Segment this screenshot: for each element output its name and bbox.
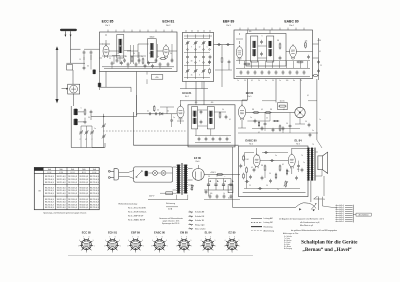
- label EBF 89: [223, 20, 235, 28]
- wire: [177, 100, 184, 124]
- resistor R10: [153, 105, 155, 112]
- wire: [238, 132, 318, 134]
- resistor R13: [265, 112, 272, 114]
- svg-text:1: 1: [215, 245, 216, 247]
- tube Rö3 EBF89: [236, 45, 242, 59]
- svg-text:Rö 2: Rö 2: [185, 96, 189, 98]
- svg-text:93 215 6,3: 93 215 6,3: [90, 193, 99, 195]
- svg-text:93 215 6,3: 93 215 6,3: [45, 207, 54, 209]
- FM antenna input box: [68, 84, 80, 94]
- capacitor C35: [245, 180, 249, 183]
- dial lamp 1: [153, 171, 158, 176]
- svg-text:93 215 6,3: 93 215 6,3: [57, 179, 66, 181]
- tube socket EABC 80: [151, 237, 168, 254]
- resistor R2: [131, 56, 133, 63]
- svg-text:0,5: 0,5: [261, 109, 263, 111]
- svg-text:die größeren Widerstandswerte: die größeren Widerstandswerte in kΩ und …: [291, 229, 337, 232]
- value labels out: [246, 155, 303, 191]
- svg-text:1k: 1k: [223, 193, 225, 195]
- svg-text:93 215 6,3: 93 215 6,3: [79, 204, 88, 206]
- output transformer: [307, 148, 316, 181]
- svg-text:B = Buchse: B = Buchse: [284, 240, 292, 242]
- capacitor C14: [167, 62, 170, 66]
- svg-text:Anschluß a1: Anschluß a1: [336, 204, 345, 207]
- svg-text:30: 30: [191, 61, 193, 63]
- wire: [81, 126, 92, 130]
- svg-text:Rö 1: Rö 1: [105, 25, 110, 27]
- capacitor C13: [159, 62, 162, 66]
- capacitor C26: [200, 120, 203, 124]
- socket label ECC 85: [82, 230, 92, 234]
- svg-text:93 215 6,3: 93 215 6,3: [79, 179, 88, 181]
- svg-text:S = Schalter: S = Schalter: [284, 235, 292, 238]
- svg-text:Rö 3 = EBF 89 ZF: Rö 3 = EBF 89 ZF: [128, 216, 144, 218]
- capacitor bank row2: [184, 53, 211, 60]
- diode D1: [160, 112, 163, 115]
- svg-text:30: 30: [88, 117, 90, 119]
- svg-text:1: 1: [239, 245, 240, 247]
- connector circle: [295, 107, 305, 117]
- capacitor C34: [295, 176, 298, 180]
- svg-text:Rö 4: Rö 4: [289, 25, 294, 27]
- svg-text:50: 50: [208, 176, 210, 178]
- tube Rö6 EZ80 rectifier: [192, 165, 204, 180]
- svg-text:50: 50: [266, 185, 268, 187]
- capacitor C16: [226, 43, 230, 46]
- svg-text:93 215 6,3: 93 215 6,3: [68, 204, 77, 206]
- wire: [105, 72, 107, 88]
- svg-text:93 215 6,3: 93 215 6,3: [57, 176, 66, 178]
- wire: [180, 82, 208, 89]
- psu extra: [188, 185, 207, 194]
- IF can B: [267, 36, 274, 62]
- module box AF output: [239, 146, 309, 197]
- svg-text:70: 70: [312, 144, 314, 146]
- svg-text:25: 25: [266, 118, 268, 120]
- svg-text:3: 3: [159, 252, 160, 254]
- wire: [102, 55, 146, 57]
- coil L3: [98, 83, 101, 88]
- wire: [286, 51, 313, 53]
- wire: [104, 66, 172, 69]
- pickup leads: [296, 203, 317, 212]
- svg-text:0,1: 0,1: [307, 95, 309, 97]
- svg-text:7: 7: [191, 47, 192, 49]
- module box IF demodulator: [234, 30, 313, 79]
- capacitor C22: [148, 112, 152, 115]
- output box extra: [253, 155, 277, 190]
- svg-text:EABC 80: EABC 80: [284, 20, 298, 24]
- svg-text:5: 5: [200, 245, 201, 247]
- svg-text:50: 50: [244, 80, 246, 82]
- capacitor row detector: [240, 70, 306, 74]
- IF can D: [207, 107, 214, 129]
- svg-text:5: 5: [224, 245, 225, 247]
- legend abbreviations: [283, 232, 299, 250]
- svg-text:1M: 1M: [277, 40, 280, 42]
- IF can C: [192, 107, 198, 129]
- coil L6: [91, 55, 96, 74]
- svg-text:Leitung AM: Leitung AM: [264, 217, 273, 220]
- tube Rö4 EABC80: [290, 44, 297, 59]
- trimmer C6: [90, 130, 94, 134]
- svg-text:93 215 6,3: 93 215 6,3: [68, 190, 77, 192]
- pin ticks box3: [240, 28, 304, 30]
- svg-text:3: 3: [112, 252, 113, 254]
- svg-text:93 215 6,3: 93 215 6,3: [68, 202, 77, 204]
- resistor R19: [258, 120, 279, 127]
- svg-text:Rö 4: Rö 4: [249, 144, 253, 146]
- svg-text:7k: 7k: [301, 155, 303, 157]
- svg-text:EL 84: EL 84: [294, 139, 302, 143]
- svg-text:15: 15: [79, 59, 81, 61]
- value labels psu: [208, 176, 225, 196]
- capacitor C8: [111, 61, 114, 65]
- table body values: [45, 176, 99, 209]
- capacitor C10: [135, 62, 138, 66]
- wire: [71, 135, 105, 148]
- wire: [102, 34, 110, 46]
- table header: [38, 168, 97, 174]
- label EABC 80: [284, 20, 298, 28]
- inner box ratio detector: [246, 34, 286, 67]
- svg-text:50: 50: [157, 110, 159, 112]
- resistor R14: [279, 125, 281, 132]
- dipole arrow: [55, 46, 58, 103]
- dial lamp 2: [161, 171, 166, 176]
- svg-text:9: 9: [93, 240, 94, 242]
- wire: [244, 172, 300, 189]
- coil L1 ferrite: [73, 109, 78, 115]
- tube Rö1 ECC85 triode b: [163, 44, 169, 58]
- capacitor C30: [270, 159, 274, 162]
- wire B+ rail: [204, 172, 240, 175]
- svg-text:Abschirmung: Abschirmung: [264, 229, 275, 232]
- svg-text:EBF 89: EBF 89: [131, 230, 140, 234]
- electrolytic capacitor bank: [207, 179, 233, 191]
- svg-text:2: 2: [140, 250, 141, 252]
- svg-text:220 V~: 220 V~: [149, 196, 156, 198]
- svg-text:93 215 6,3: 93 215 6,3: [57, 187, 66, 189]
- svg-text:Klang- regler: Klang- regler: [195, 223, 205, 226]
- svg-text:Rö 1 = ECC 85 UKW: Rö 1 = ECC 85 UKW: [128, 207, 146, 209]
- box2 small parts: [208, 60, 211, 74]
- svg-text:1: 1: [143, 245, 144, 247]
- svg-text:0,5: 0,5: [251, 167, 253, 169]
- IF transformer block: [188, 105, 235, 147]
- svg-text:4: 4: [107, 250, 108, 252]
- transformer core: [181, 163, 182, 195]
- svg-text:1/7: 1/7: [85, 139, 87, 141]
- svg-text:3: 3: [184, 252, 185, 254]
- svg-text:3: 3: [232, 252, 233, 254]
- note text 4: [291, 229, 337, 232]
- tube socket EL 84: [200, 237, 217, 254]
- svg-text:alle Kondensatoren in pF,: alle Kondensatoren in pF,: [300, 221, 320, 224]
- svg-text:6: 6: [201, 240, 202, 242]
- resistor R6: [279, 43, 281, 50]
- svg-text:245: 245: [305, 41, 308, 43]
- svg-text:93 215 6,3: 93 215 6,3: [45, 199, 54, 201]
- svg-text:2k: 2k: [167, 111, 169, 113]
- wire: [222, 45, 229, 87]
- wire: [196, 129, 211, 136]
- svg-text:100: 100: [297, 169, 300, 171]
- wire: [242, 79, 247, 106]
- wire: [236, 60, 310, 62]
- capacitor C39: [309, 133, 312, 137]
- svg-text:EZ 80: EZ 80: [194, 156, 201, 160]
- power transformer primary: [176, 165, 180, 194]
- wire: [238, 118, 246, 128]
- wire: [257, 148, 292, 155]
- svg-text:2: 2: [117, 250, 118, 252]
- capacitor C11: [144, 64, 147, 68]
- svg-text:Spannungen bei 220 V~: Spannungen bei 220 V~: [162, 223, 180, 225]
- svg-text:E = Erde: E = Erde: [284, 244, 290, 246]
- svg-text:EABC 80: EABC 80: [245, 139, 257, 143]
- svg-text:EZ 80: EZ 80: [229, 230, 236, 234]
- svg-text:1n: 1n: [250, 117, 252, 119]
- antenna: [61, 30, 75, 37]
- capacitor C32: [261, 176, 264, 180]
- capacitor C36: [116, 58, 174, 65]
- trimmer C5: [85, 130, 89, 134]
- svg-text:10M: 10M: [246, 159, 250, 161]
- note text 2: [300, 221, 320, 224]
- svg-text:2n: 2n: [277, 189, 279, 191]
- capacitor C15: [217, 43, 221, 46]
- tuning shaft arrow: [62, 88, 69, 90]
- svg-text:0,1: 0,1: [258, 132, 260, 134]
- svg-text:1n: 1n: [173, 117, 175, 119]
- wire mains cord: [119, 171, 134, 179]
- svg-text:Schalter FM: Schalter FM: [195, 215, 205, 218]
- svg-text:5: 5: [176, 245, 177, 247]
- wire: [298, 161, 300, 172]
- svg-text:12: 12: [199, 47, 201, 49]
- resistor R9: [312, 75, 318, 77]
- svg-text:5: 5: [151, 245, 152, 247]
- svg-text:1M: 1M: [261, 165, 264, 167]
- capacitor C18: [260, 40, 263, 44]
- potentiometer volume: [284, 181, 288, 188]
- tube socket EBF 89: [127, 237, 144, 254]
- IF can A: [251, 36, 258, 62]
- label 220V: [149, 196, 156, 198]
- svg-text:Die Angaben der Spannungswerte: Die Angaben der Spannungswerte sind Rich…: [279, 217, 324, 220]
- svg-text:Rö 5: Rö 5: [248, 96, 252, 98]
- svg-text:93 215 6,3: 93 215 6,3: [45, 182, 54, 184]
- svg-text:2k: 2k: [133, 53, 135, 55]
- capacitor C28: [308, 123, 311, 127]
- socket label EZ 80: [229, 230, 236, 234]
- svg-text:1n: 1n: [157, 56, 159, 58]
- svg-text:6: 6: [225, 240, 226, 242]
- svg-text:4: 4: [81, 250, 82, 252]
- svg-text:1n: 1n: [117, 53, 119, 55]
- component box small: [228, 185, 233, 193]
- wire: [316, 79, 318, 140]
- wire legend solid: [251, 217, 273, 220]
- svg-text:93 215 6,3: 93 215 6,3: [79, 190, 88, 192]
- output box near EL84: [286, 162, 305, 175]
- svg-text:3: 3: [135, 252, 136, 254]
- svg-text:93 215 6,3: 93 215 6,3: [45, 193, 54, 195]
- svg-text:460: 460: [195, 102, 198, 104]
- svg-text:6: 6: [177, 240, 178, 242]
- switch contact circles: [187, 49, 211, 64]
- wire: [181, 100, 248, 102]
- svg-text:EL 84: EL 84: [205, 230, 212, 234]
- svg-text:+: +: [210, 181, 211, 183]
- svg-text:25: 25: [249, 185, 251, 187]
- wire: [275, 79, 277, 103]
- wire: [204, 190, 232, 196]
- svg-text:2M: 2M: [270, 109, 273, 111]
- trimmer bank row3: [184, 66, 210, 78]
- svg-text:9: 9: [214, 240, 215, 242]
- svg-text:6: 6: [105, 240, 106, 242]
- tube socket EZ 80: [224, 237, 241, 254]
- svg-text:60: 60: [87, 66, 89, 68]
- svg-text:1n: 1n: [319, 119, 321, 121]
- value labels right: [307, 51, 322, 146]
- svg-text:ECC 85: ECC 85: [82, 230, 92, 234]
- IF can 10.7MHz: [117, 35, 124, 59]
- svg-text:93 215 6,3: 93 215 6,3: [68, 207, 77, 209]
- svg-text:9: 9: [238, 240, 239, 242]
- variable capacitor C7 gang: [102, 124, 106, 139]
- resistor R17: [279, 165, 281, 172]
- capacitor C24: [170, 118, 173, 122]
- wire: [157, 50, 177, 52]
- svg-text:C: C: [91, 139, 93, 141]
- svg-text:300: 300: [257, 155, 260, 157]
- svg-text:0,1: 0,1: [282, 164, 284, 166]
- svg-text:Netz- schalter: Netz- schalter: [195, 228, 206, 231]
- svg-text:2: 2: [237, 250, 238, 252]
- svg-text:93 215 6,3: 93 215 6,3: [90, 207, 99, 209]
- coil L4: [208, 41, 211, 46]
- svg-text:50: 50: [165, 58, 167, 60]
- wire: [136, 72, 138, 114]
- label ECH 81 mid: [182, 91, 192, 98]
- svg-text:Rö 4 = EABC 80 NF: Rö 4 = EABC 80 NF: [128, 219, 146, 222]
- svg-text:EABC 80: EABC 80: [154, 230, 166, 234]
- wire: [233, 206, 296, 208]
- wire: [72, 70, 74, 84]
- svg-text:9: 9: [199, 75, 200, 77]
- svg-text:9: 9: [166, 240, 167, 242]
- svg-text:50: 50: [216, 176, 218, 178]
- wire: [100, 72, 132, 91]
- coil L2 ferrite: [73, 119, 78, 125]
- svg-text:4: 4: [203, 250, 204, 252]
- svg-text:Rö 3: Rö 3: [226, 25, 231, 27]
- svg-text:93 215 6,3: 93 215 6,3: [68, 193, 77, 195]
- wire: [214, 44, 235, 46]
- capacitor C31: [249, 175, 252, 179]
- wire: [171, 114, 173, 127]
- mains switch: [136, 171, 143, 178]
- wire: [295, 118, 305, 124]
- legend heading Röhrenbestückung: [119, 202, 138, 205]
- svg-text:Abkürzungen im Plan:: Abkürzungen im Plan:: [283, 232, 299, 235]
- svg-text:0,1: 0,1: [147, 111, 149, 113]
- svg-text:8: 8: [199, 61, 200, 63]
- svg-text:5: 5: [78, 245, 79, 247]
- capacitor C40: [83, 57, 86, 70]
- svg-text:Rö 2: Rö 2: [166, 25, 171, 27]
- wire: [85, 114, 91, 120]
- svg-text:93 215 6,3: 93 215 6,3: [57, 182, 66, 184]
- wire: [247, 121, 300, 129]
- capacitor C41: [254, 119, 285, 131]
- resistor R11: [219, 112, 221, 119]
- wire: [236, 69, 310, 77]
- wire: [236, 33, 243, 44]
- inner wire bottom: [243, 192, 306, 194]
- svg-text:+: +: [225, 176, 226, 178]
- svg-text:93 215 6,3: 93 215 6,3: [90, 202, 99, 204]
- svg-text:Sperrkr.: Sperrkr.: [280, 100, 286, 103]
- svg-text:50: 50: [286, 123, 288, 125]
- wire: [247, 30, 270, 34]
- resistor R8: [297, 41, 310, 63]
- svg-text:+: +: [217, 181, 218, 183]
- svg-text:20: 20: [323, 199, 325, 201]
- wire: [315, 152, 322, 176]
- svg-text:1: 1: [120, 245, 121, 247]
- wire: [262, 100, 317, 102]
- svg-text:93 215 6,3: 93 215 6,3: [45, 204, 54, 206]
- svg-text:+250 V: +250 V: [210, 172, 217, 174]
- wire: [313, 38, 319, 80]
- svg-text:1: 1: [167, 245, 168, 247]
- fold line: [68, 255, 253, 257]
- svg-text:+: +: [225, 181, 226, 183]
- svg-text:40: 40: [125, 56, 127, 58]
- wire: [317, 140, 322, 148]
- svg-text:Anschlußleiste: Anschlußleiste: [359, 213, 369, 216]
- svg-text:93 215 6,3: 93 215 6,3: [68, 176, 77, 178]
- table caption: [43, 211, 86, 214]
- svg-text:Röhrenbestückung:: Röhrenbestückung:: [119, 202, 138, 205]
- svg-text:Stift: Stift: [60, 168, 64, 171]
- svg-text:6: 6: [128, 240, 129, 242]
- svg-text:Stift: Stift: [82, 168, 86, 171]
- svg-text:93 215 6,3: 93 215 6,3: [45, 179, 54, 181]
- capacitor antenna coupling: [83, 50, 93, 54]
- svg-text:„Bernau“ und „Havel“: „Bernau“ und „Havel“: [302, 247, 352, 253]
- socket label ECH 81: [108, 230, 118, 234]
- svg-text:93 215 6,3: 93 215 6,3: [90, 190, 99, 192]
- socket label EABC 80: [154, 230, 166, 234]
- svg-text:70: 70: [300, 80, 302, 82]
- wire: [100, 44, 104, 58]
- svg-text:EBF 89: EBF 89: [223, 20, 235, 24]
- svg-text:8: 8: [138, 237, 139, 239]
- wire: [188, 169, 193, 180]
- svg-text:1M: 1M: [252, 109, 255, 111]
- svg-text:5n: 5n: [312, 130, 314, 132]
- module box AM coil pack: [183, 32, 214, 81]
- svg-text:EM 80: EM 80: [180, 230, 188, 234]
- socket label EL 84: [205, 230, 212, 234]
- svg-text:8n: 8n: [293, 80, 295, 82]
- svg-text:0,1: 0,1: [251, 80, 253, 82]
